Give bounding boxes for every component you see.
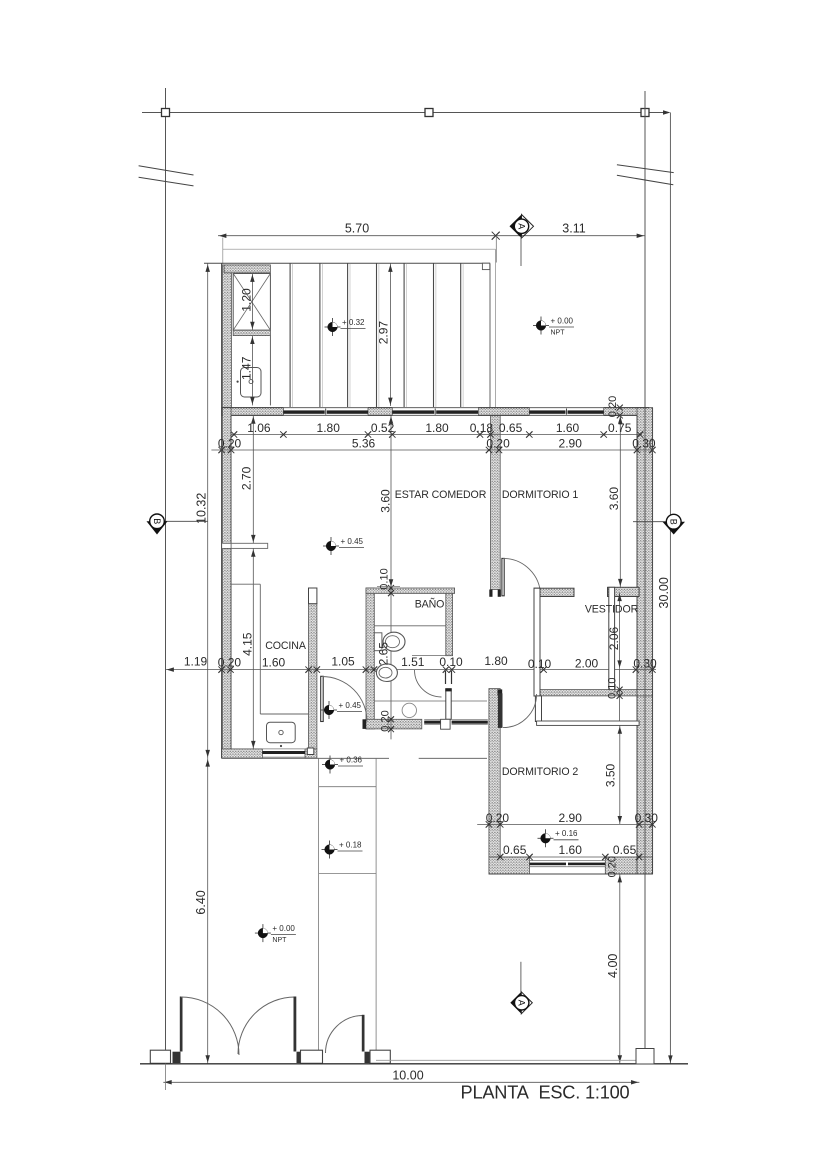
east wall inner line [636, 415, 638, 874]
svg-text:4.15: 4.15 [240, 632, 254, 656]
east wall hatch [637, 408, 653, 874]
hall south jamb white [441, 719, 451, 729]
svg-text:10.32: 10.32 [194, 493, 208, 524]
svg-text:+ 0.32: + 0.32 [342, 318, 365, 327]
arrow right end 3.11 [637, 233, 644, 238]
svg-text:2.06: 2.06 [607, 626, 621, 650]
gate leaf left [180, 997, 183, 1052]
dim stub below 2.06 [619, 669, 621, 726]
baseline square right [636, 1049, 654, 1065]
fence line light right [376, 1059, 644, 1061]
dim line 10.00 [163, 1081, 639, 1083]
svg-text:0.10: 0.10 [528, 657, 552, 671]
svg-text:+ 0.00: + 0.00 [551, 316, 574, 325]
svg-text:NPT: NPT [551, 330, 566, 337]
svg-text:ESTAR COMEDOR: ESTAR COMEDOR [395, 489, 487, 501]
section B right leader [633, 521, 666, 523]
wall estar-dorm1 hatch [491, 415, 501, 589]
walkway divider 2 [319, 873, 377, 875]
svg-text:4.00: 4.00 [606, 954, 620, 978]
laundry sink drain [249, 380, 253, 384]
svg-text:0.20: 0.20 [607, 396, 619, 417]
east wall outer line [652, 408, 654, 874]
west wall inner face lower [230, 548, 232, 749]
pedestrian gate arc [326, 1016, 364, 1054]
svg-text:BAÑO: BAÑO [415, 597, 445, 610]
west wall hatch lower [223, 548, 232, 749]
terrace outline top [223, 248, 496, 250]
svg-text:0.75: 0.75 [608, 421, 632, 435]
bano door arc [415, 670, 442, 697]
hall south band edge lines [424, 718, 440, 720]
arrow left end 5.70 [219, 233, 226, 238]
gate post dark left [173, 1052, 181, 1063]
section marker B right [663, 522, 686, 535]
svg-text:VESTIDOR: VESTIDOR [585, 604, 639, 616]
pedestrian gate leaf [362, 1015, 365, 1052]
svg-text:B: B [152, 518, 162, 524]
closet left top band [534, 588, 574, 596]
bano left wall hatch [366, 588, 374, 729]
north wall hatch segment 2 [368, 408, 392, 416]
svg-text:0.18: 0.18 [470, 421, 494, 435]
bano bottom wall hatch [366, 719, 422, 729]
leader line above marker A bottom [520, 962, 522, 993]
svg-text:2.90: 2.90 [559, 811, 583, 825]
svg-text:0.20: 0.20 [606, 856, 618, 877]
deck right edge [489, 264, 491, 408]
svg-text:0.52: 0.52 [371, 421, 395, 435]
svg-text:0.10: 0.10 [607, 677, 619, 698]
grid node square middle [425, 109, 433, 117]
extension line below 5.70 tick [495, 236, 497, 263]
svg-text:1.60: 1.60 [559, 843, 583, 857]
svg-text:NPT: NPT [272, 937, 287, 944]
svg-text:10.00: 10.00 [392, 1068, 423, 1082]
gate post white right [370, 1050, 390, 1063]
level marker +0.00 NPT garden [262, 924, 264, 942]
laundry sink tap dot [237, 381, 239, 383]
hall south dark band 1 [424, 721, 440, 724]
walkway right edge [375, 758, 377, 1050]
gate post white left [150, 1050, 170, 1063]
ground baseline [140, 1063, 688, 1065]
hall door swing arc [322, 677, 367, 722]
svg-text:1.05: 1.05 [331, 655, 355, 669]
section B left leader [165, 520, 208, 522]
svg-text:0.20: 0.20 [486, 811, 510, 825]
30.00 dimension line vertical right [669, 113, 671, 1064]
window W1 estar north [283, 407, 368, 409]
svg-text:A: A [517, 1000, 527, 1006]
dorm2 top thin wall [537, 721, 640, 725]
bano top wall hatch [366, 588, 455, 593]
grid node square left [162, 109, 170, 117]
svg-text:0.10: 0.10 [439, 655, 463, 669]
closet bottom band hatch [534, 690, 652, 696]
level marker +0.45 estar [330, 537, 332, 555]
section marker B left [147, 521, 168, 534]
kitchen south wall hatch [222, 749, 263, 758]
closet right top band [608, 587, 640, 596]
svg-text:1.20: 1.20 [239, 288, 253, 312]
dim line 4.15 [252, 548, 254, 749]
svg-text:1.06: 1.06 [247, 421, 271, 435]
svg-text:0.30: 0.30 [633, 657, 657, 671]
svg-text:5.70: 5.70 [345, 222, 369, 236]
svg-text:1.60: 1.60 [556, 421, 580, 435]
svg-text:3.50: 3.50 [604, 763, 618, 787]
wall estar-dorm1 end jambs [489, 590, 492, 597]
dorm2 south window [530, 860, 606, 862]
level marker +0.32 terrace [332, 318, 334, 336]
dorm2 bottom wall hatch left [489, 857, 530, 874]
dim line 2.70 [252, 415, 254, 543]
dorm1 door swing arc [503, 558, 541, 595]
interior dim chain line x391 [390, 415, 392, 739]
window W3 dorm1 north [529, 407, 603, 409]
tick at 495.7 between 5.70 and 3.11 [492, 232, 500, 240]
dorm2 left wall hatch [489, 689, 500, 874]
site line right vertical (lot corner) [644, 91, 646, 1050]
west wall outer line [221, 263, 223, 758]
level marker +0.18 walkway [329, 841, 331, 859]
svg-text:3.60: 3.60 [607, 487, 621, 511]
svg-text:1.19: 1.19 [184, 654, 208, 668]
dorm2 door swing arc [503, 694, 537, 728]
break mark right pair [617, 165, 674, 173]
break mark left pair [139, 166, 194, 175]
arrow at top of 30.00 line [663, 110, 670, 115]
closet right wall [609, 587, 615, 689]
svg-text:0.20: 0.20 [486, 437, 510, 451]
svg-text:1.60: 1.60 [262, 656, 286, 670]
patio edge line y758 segment 2 [419, 757, 487, 759]
svg-text:2.97: 2.97 [377, 321, 391, 345]
svg-text:0.20: 0.20 [218, 656, 242, 670]
dorm1 door leaf [502, 558, 504, 595]
svg-text:1.47: 1.47 [239, 356, 253, 380]
terrace outline right [494, 249, 496, 407]
site grid line left vertical [165, 88, 167, 1064]
svg-text:+ 0.45: + 0.45 [339, 701, 362, 710]
svg-text:1.80: 1.80 [317, 421, 341, 435]
west wall inner face upper [230, 415, 232, 543]
kitchen south window [262, 748, 305, 750]
svg-text:2.70: 2.70 [240, 466, 254, 490]
gate post dark right [365, 1052, 371, 1063]
kitchen counter top edge [231, 583, 260, 585]
dim line 2.06 [619, 593, 621, 669]
bano-dorm2 thin wall [446, 689, 451, 720]
dorm2 bottom outer line [489, 873, 653, 875]
terrace top cell hatch strip [224, 265, 270, 273]
kitchen partition wall hatch [309, 604, 317, 749]
level marker +0.00 NPT right [540, 317, 542, 335]
gate arc left [181, 997, 239, 1055]
north wall hatch segment 1 [222, 408, 284, 416]
hall door leaf [321, 676, 324, 721]
dimension row2 line+ticks [211, 449, 653, 451]
svg-text:COCINA: COCINA [265, 640, 307, 652]
bano interior line 3 [374, 700, 487, 702]
svg-text:1.80: 1.80 [425, 421, 449, 435]
middle dimension row line+ticks [166, 669, 657, 671]
svg-text:+ 0.36: + 0.36 [340, 755, 363, 764]
dim row3 dorm2 line+ticks [477, 823, 653, 825]
dimension line 5.70-3.11 [218, 235, 645, 237]
svg-text:3.60: 3.60 [378, 489, 392, 513]
level marker +0.16 dorm2 [545, 829, 547, 847]
svg-text:0.30: 0.30 [632, 437, 656, 451]
0.10 extension stubs at bano right wall [445, 671, 447, 684]
dorm2 bottom wall hatch right [605, 857, 652, 874]
svg-text:30.00: 30.00 [657, 577, 671, 608]
svg-text:+ 0.00: + 0.00 [272, 924, 295, 933]
west wall hatch upper [223, 408, 232, 544]
svg-text:B: B [669, 519, 679, 525]
level marker +0.36 walkway [329, 756, 331, 774]
dim line 3.50 [619, 725, 621, 824]
dim line 6.40 [207, 758, 209, 1063]
dim line 2.97 [389, 264, 391, 407]
svg-text:1.51: 1.51 [401, 655, 425, 669]
terrace left wall hatch [223, 265, 232, 408]
svg-text:0.65: 0.65 [499, 421, 523, 435]
kitchen sink [267, 722, 296, 743]
ticks 0.20 north wall right [617, 405, 623, 411]
north wall inner face line [231, 414, 637, 416]
leader line below marker A [520, 236, 522, 266]
shower drain circle [402, 703, 416, 717]
svg-text:0.20: 0.20 [218, 437, 242, 451]
dimension row1 line+ticks [231, 434, 642, 436]
svg-text:1.80: 1.80 [484, 654, 508, 668]
section marker A bottom [510, 992, 521, 1014]
svg-text:6.40: 6.40 [194, 890, 208, 914]
bano interior line 2 [412, 655, 448, 657]
walkway left edge [318, 758, 320, 1050]
dim line 3.60 dorm1 [619, 415, 621, 587]
svg-text:0.30: 0.30 [635, 811, 659, 825]
svg-text:0.65: 0.65 [613, 843, 637, 857]
svg-text:5.36: 5.36 [352, 437, 376, 451]
section marker A top [510, 215, 522, 239]
dim line 10.32 [207, 264, 209, 759]
patio edge line y758 segment 1 [222, 757, 389, 759]
level marker +0.45 hall [328, 701, 330, 719]
kitchen south corner hatch [305, 749, 317, 758]
svg-text:2.65: 2.65 [377, 642, 391, 666]
toilet tank [374, 633, 382, 651]
deck top edge [204, 262, 490, 264]
window W2 estar north [392, 407, 478, 409]
kitchen counter left edge [259, 584, 261, 714]
svg-text:0.65: 0.65 [503, 843, 527, 857]
dim line 1.47 [251, 336, 253, 406]
svg-text:0.20: 0.20 [379, 710, 391, 731]
svg-text:+ 0.45: + 0.45 [341, 537, 364, 546]
dim line 4.00 [619, 874, 621, 1064]
wall stub closet to dorm2 [535, 696, 541, 722]
svg-text:+ 0.16: + 0.16 [555, 829, 578, 838]
kitchen corner white square [307, 748, 314, 755]
kitchen partition column [309, 588, 317, 604]
dorm2 door leaf [498, 693, 503, 728]
extension line terrace top left [222, 238, 224, 266]
hall door jamb block [363, 719, 367, 729]
north wall hatch segment 3 [479, 408, 530, 416]
window sill shelf west wall [231, 543, 268, 548]
laundry sink rounded rect [241, 368, 262, 398]
extension line left of 10.00 [165, 1064, 167, 1090]
dorm2 left wall top jamb [498, 689, 503, 695]
kitchen counter bottom edge [260, 713, 308, 715]
deck corner square right [482, 263, 489, 269]
lower cell right edge [269, 336, 271, 406]
walkway divider 1 [319, 786, 377, 788]
gate arc right [238, 997, 295, 1054]
dim row4 dorm2 line+ticks [490, 856, 645, 858]
svg-text:+ 0.18: + 0.18 [339, 840, 362, 849]
stair/closet box with X [233, 274, 270, 331]
svg-text:A: A [517, 223, 527, 229]
toilet bowl [383, 632, 405, 651]
closet left wall [534, 588, 540, 696]
bano thin wall top jamb [445, 689, 451, 692]
bidet [376, 664, 397, 682]
dim line 1.20 [251, 274, 253, 331]
site grid line top horizontal [142, 112, 666, 114]
kitchen sink dot [280, 745, 282, 747]
deck board lines [289, 264, 291, 408]
hall south dark band 2 [452, 721, 488, 724]
svg-text:DORMITORIO 2: DORMITORIO 2 [502, 766, 579, 778]
gate leaf right [294, 997, 297, 1052]
gate post white middle [301, 1050, 323, 1063]
kitchen sink drain [279, 730, 283, 734]
bano interior line 1 [374, 625, 446, 627]
svg-text:DORMITORIO 1: DORMITORIO 1 [502, 489, 579, 501]
bano right wall upper hatch [446, 593, 453, 655]
chain x391 ticks [389, 416, 394, 423]
north wall hatch segment 4 [604, 408, 649, 416]
svg-text:2.00: 2.00 [575, 657, 599, 671]
north wall outer face line [222, 407, 649, 409]
svg-text:2.90: 2.90 [559, 437, 583, 451]
svg-text:PLANTA ESC. 1:100: PLANTA ESC. 1:100 [461, 1082, 630, 1102]
arrow at bottom of 30.00 line [668, 1055, 673, 1062]
cell divider hatch strip [233, 330, 270, 336]
svg-text:0.10: 0.10 [379, 568, 391, 589]
grid node square right [641, 109, 649, 117]
extension line y586 right stub [377, 585, 400, 587]
svg-text:3.11: 3.11 [562, 222, 585, 236]
gate post dark middle [297, 1052, 301, 1063]
